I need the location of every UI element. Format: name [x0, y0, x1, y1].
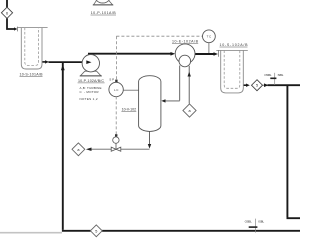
svg-text:ISBL: ISBL [258, 220, 264, 224]
svg-text:6: 6 [6, 11, 8, 15]
svg-text:ISBL: ISBL [278, 73, 284, 77]
svg-text:10-P-102A/B/C: 10-P-102A/B/C [78, 79, 104, 83]
svg-text:10-V-102: 10-V-102 [122, 107, 137, 111]
svg-text:OSBL: OSBL [264, 73, 272, 77]
svg-text:5: 5 [95, 229, 97, 233]
svg-text:C - MOTOR: C - MOTOR [80, 90, 100, 94]
svg-text:SP: SP [109, 77, 114, 81]
svg-text:5: 5 [256, 84, 258, 88]
svg-text:NOTES 1,2: NOTES 1,2 [80, 97, 98, 101]
svg-text:10-P-101A/B: 10-P-101A/B [91, 11, 117, 15]
svg-text:OSBL: OSBL [245, 220, 253, 224]
svg-text:10-S-101A/B: 10-S-101A/B [20, 72, 44, 76]
svg-text:10-S-102A/B: 10-S-102A/B [220, 43, 249, 47]
svg-text:10-E-102A/B: 10-E-102A/B [172, 40, 199, 44]
